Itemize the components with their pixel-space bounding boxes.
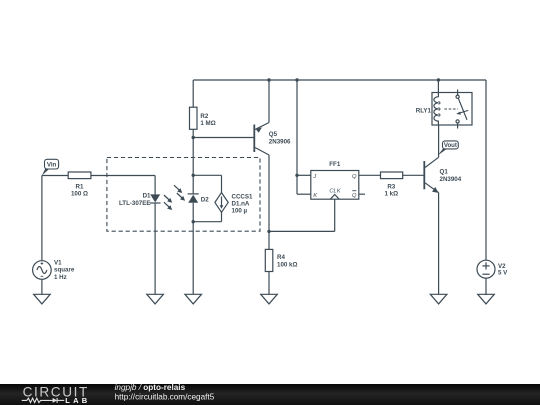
flip-flop FF1 <box>311 171 359 200</box>
label V2 <box>498 263 508 277</box>
wire CLK horizontal <box>269 230 335 232</box>
node D2 bottom junction <box>192 220 195 223</box>
logo squiggle resistor and diode <box>22 398 64 403</box>
relay RLY1 <box>432 90 472 129</box>
label R2 <box>200 113 215 127</box>
node CLK/R4 junction <box>267 230 270 233</box>
svg-text:1 kΩ: 1 kΩ <box>385 191 399 198</box>
svg-text:square: square <box>54 267 75 274</box>
wire node to CCCS1 top <box>193 174 221 176</box>
label V1 <box>54 259 75 280</box>
wire Q1 emitter down <box>438 193 440 295</box>
wire CLK vertical <box>334 199 336 231</box>
svg-text:Vin: Vin <box>47 162 57 169</box>
svg-text:Q1: Q1 <box>440 168 449 175</box>
svg-text:ingpjb / opto-relais: ingpjb / opto-relais <box>115 383 186 392</box>
ground Q1 <box>430 294 447 304</box>
wire CCCS1 bottom horizontal <box>193 221 221 223</box>
node J/K rail junction <box>295 78 298 81</box>
wire Q5 base <box>193 137 254 139</box>
wire K lead <box>297 193 311 195</box>
label R1 <box>71 183 88 197</box>
opto light arrow 4 <box>177 193 185 201</box>
svg-text:2N3906: 2N3906 <box>269 138 291 145</box>
ground D1 <box>147 294 164 304</box>
svg-text:R1: R1 <box>76 183 84 190</box>
resistor R2 <box>190 107 198 129</box>
wire V1 bottom lead <box>41 279 43 294</box>
opto light arrow 2 <box>164 202 172 210</box>
svg-text:LTL-307EE: LTL-307EE <box>119 200 151 207</box>
current source CCCS1 <box>215 193 228 213</box>
svg-text:D2: D2 <box>201 196 209 203</box>
svg-text:K: K <box>313 193 318 199</box>
wire D1 cathode to ground <box>154 203 156 294</box>
ground D2 <box>185 294 202 304</box>
label RLY1 <box>416 107 432 114</box>
wire R2 bottom to D2 <box>192 129 194 194</box>
label R3 <box>385 184 399 198</box>
source V2 <box>477 260 495 278</box>
flag Vout <box>438 141 459 156</box>
footer bar <box>0 384 540 405</box>
resistor R3 <box>381 172 403 179</box>
opto light arrow 3 <box>174 185 182 193</box>
label D2 <box>201 196 209 203</box>
svg-text:R2: R2 <box>200 113 208 120</box>
opto-coupler dashed box <box>107 158 260 232</box>
label Q1 <box>440 168 462 183</box>
label D1 <box>119 193 151 208</box>
wire CCCS1 top lead <box>221 175 223 192</box>
wire Q to R3 <box>359 174 381 176</box>
svg-text:D1: D1 <box>143 193 151 200</box>
node J tie junction <box>295 174 298 177</box>
wire D2 anode to ground <box>192 203 194 294</box>
diode D2 photodiode <box>188 194 199 203</box>
diode D1 LED <box>150 194 161 203</box>
flag Vin <box>42 159 59 175</box>
wire R4 bottom lead <box>268 272 270 295</box>
svg-text:5 V: 5 V <box>498 270 508 277</box>
svg-text:100 kΩ: 100 kΩ <box>277 261 297 268</box>
node Q5 emitter rail junction <box>267 78 270 81</box>
wire relay coil top lead <box>437 80 439 93</box>
wire V2 top lead <box>485 80 487 260</box>
transistor Q1 <box>424 157 438 193</box>
wire R1 to D1 <box>91 175 155 177</box>
svg-text:2N3904: 2N3904 <box>440 176 462 183</box>
svg-text:Q5: Q5 <box>269 131 278 138</box>
transistor Q5 <box>254 123 269 156</box>
svg-text:Q: Q <box>352 174 357 180</box>
ground V2 <box>478 294 495 304</box>
svg-text:Q: Q <box>352 193 357 199</box>
svg-text:R4: R4 <box>277 254 285 261</box>
svg-text:RLY1: RLY1 <box>416 107 432 114</box>
ground R4 <box>261 294 278 304</box>
wire Q5 collector to R4 <box>268 155 270 249</box>
svg-text:Vout: Vout <box>444 142 457 149</box>
svg-text:J: J <box>312 174 316 180</box>
ground V1 <box>34 294 51 304</box>
svg-text:V1: V1 <box>54 259 62 266</box>
wire R2 top lead <box>192 80 194 107</box>
svg-text:1 MΩ: 1 MΩ <box>200 120 215 127</box>
pin Q <box>352 174 357 180</box>
wire R3 to Q1 base <box>403 174 424 176</box>
pin J <box>312 174 316 180</box>
logo CIRCUIT <box>23 384 89 399</box>
pin CLK <box>329 188 341 194</box>
wire CCCS1 bottom lead <box>221 212 223 221</box>
wire relay coil to Q1 collector <box>438 125 440 157</box>
svg-text:D1.nA: D1.nA <box>232 200 250 207</box>
wire V1 top lead <box>41 176 43 261</box>
label CCCS1 <box>232 193 254 214</box>
resistor R1 <box>68 172 91 179</box>
label FF1 <box>329 161 341 168</box>
node D2 top junction <box>192 174 195 177</box>
node R2/Q5 base junction <box>192 136 195 139</box>
wire top rail <box>193 79 486 81</box>
pin K <box>313 193 318 199</box>
wire J lead <box>297 174 311 176</box>
svg-text:100 Ω: 100 Ω <box>71 190 88 197</box>
logo LAB <box>65 396 90 405</box>
opto light arrow 1 <box>164 195 172 203</box>
svg-text:100 µ: 100 µ <box>232 208 248 215</box>
wire D1 anode lead <box>154 176 156 195</box>
svg-text:1 Hz: 1 Hz <box>54 274 67 281</box>
svg-text:R3: R3 <box>387 184 395 191</box>
label Q5 <box>269 131 291 145</box>
wire Vin to R1 <box>42 175 68 177</box>
wire Qbar stub <box>359 193 365 195</box>
wire V2 bottom lead <box>485 278 487 295</box>
footer url <box>115 393 215 402</box>
resistor R4 <box>265 249 273 271</box>
wire Q5 emitter vertical <box>268 80 270 123</box>
svg-text:http://circuitlab.com/cegaft5: http://circuitlab.com/cegaft5 <box>115 393 215 402</box>
footer title <box>115 383 186 392</box>
svg-text:FF1: FF1 <box>329 161 341 168</box>
source V1 <box>33 261 52 280</box>
svg-text:CLK: CLK <box>329 188 341 194</box>
label R4 <box>277 254 297 268</box>
wire J/K tie vertical <box>296 80 298 194</box>
node relay coil rail junction <box>437 78 440 81</box>
pin Qbar <box>352 191 357 199</box>
svg-text:CCCS1: CCCS1 <box>232 193 254 200</box>
svg-text:LAB: LAB <box>65 396 90 405</box>
